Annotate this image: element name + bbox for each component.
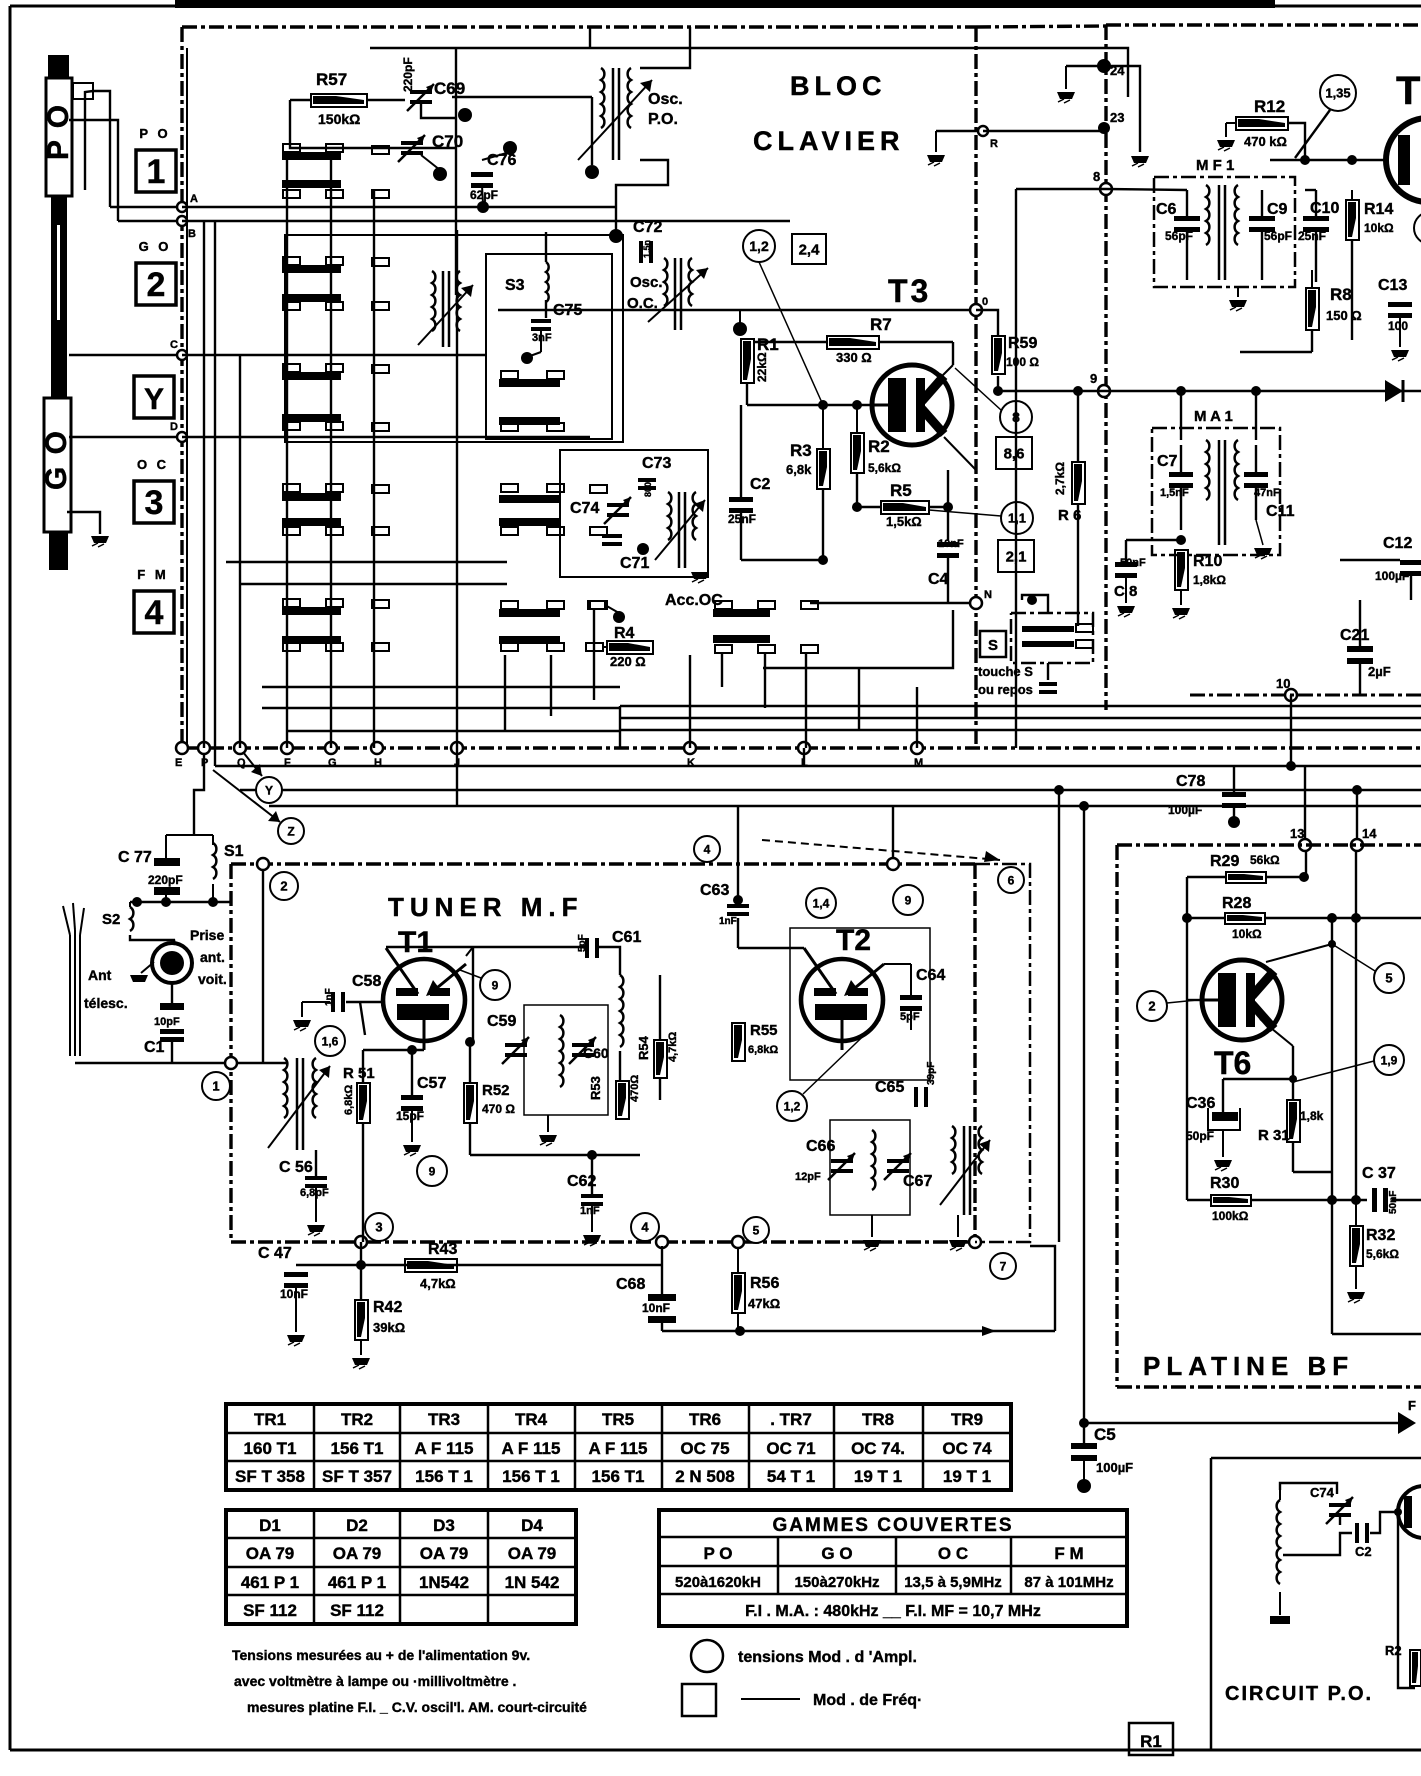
svg-text:1,5nF: 1,5nF <box>1160 487 1189 499</box>
switch contact <box>501 643 518 651</box>
svg-text:22kΩ: 22kΩ <box>755 352 769 382</box>
wire <box>1077 612 1079 626</box>
wire <box>411 1050 413 1097</box>
svg-text:C 77: C 77 <box>118 849 152 866</box>
svg-text:TR1: TR1 <box>254 1410 286 1429</box>
node D <box>177 432 187 442</box>
bus node J <box>451 742 463 754</box>
node 4b <box>656 1236 668 1248</box>
svg-text:R32: R32 <box>1366 1227 1395 1244</box>
capacitor C60 trimmer <box>572 1043 594 1047</box>
switch contact bar <box>282 636 341 644</box>
svg-text:TR6: TR6 <box>689 1410 721 1429</box>
svg-text:. TR7: . TR7 <box>770 1410 812 1429</box>
svg-text:OA 79: OA 79 <box>246 1544 295 1563</box>
svg-text:9: 9 <box>1090 371 1097 386</box>
svg-text:C21: C21 <box>1340 627 1369 644</box>
svg-text:1,6: 1,6 <box>322 1034 339 1048</box>
svg-text:23: 23 <box>1110 110 1124 125</box>
svg-text:E: E <box>175 757 182 769</box>
bloc clavier dashed border <box>182 25 976 28</box>
svg-text:C74: C74 <box>1310 1485 1335 1500</box>
svg-text:2: 2 <box>147 266 166 304</box>
switch contact <box>326 484 343 492</box>
svg-text:C12: C12 <box>1383 535 1412 552</box>
circled 1,1 <box>1001 502 1033 534</box>
wire <box>290 99 311 101</box>
switch contact <box>590 601 607 609</box>
node B <box>177 216 187 226</box>
svg-text:25nF: 25nF <box>1298 229 1326 243</box>
right block top dashed <box>1106 23 1421 26</box>
svg-text:3: 3 <box>145 484 164 522</box>
input transformer <box>284 1058 287 1118</box>
cluster box <box>560 450 708 577</box>
svg-text:TUNER M.F: TUNER M.F <box>388 892 584 922</box>
wire <box>1066 65 1104 67</box>
wire <box>810 602 971 604</box>
wire <box>262 686 620 688</box>
wire <box>1295 110 1330 158</box>
wire drop <box>721 653 723 687</box>
ground <box>403 1145 421 1152</box>
wire drop <box>805 653 807 748</box>
node 8 <box>1100 183 1112 195</box>
svg-text:156 T 1: 156 T 1 <box>502 1467 560 1486</box>
svg-text:100kΩ: 100kΩ <box>1212 1209 1249 1223</box>
bus node E <box>176 742 188 754</box>
circled 1,2b <box>777 1091 807 1121</box>
svg-text:R55: R55 <box>750 1022 778 1039</box>
svg-text:1,5n: 1,5n <box>642 240 652 258</box>
touche S dashed box <box>1011 613 1093 663</box>
svg-text:C2: C2 <box>750 476 771 493</box>
wire <box>1280 1483 1337 1494</box>
circled Y <box>256 777 282 803</box>
svg-text:13: 13 <box>1290 826 1304 841</box>
svg-text:Prise: Prise <box>190 927 224 943</box>
transformer T2 out <box>952 1126 955 1174</box>
svg-text:1nF: 1nF <box>719 916 737 927</box>
switch contact bar <box>282 180 341 188</box>
ferrite rod core <box>51 196 67 398</box>
bus node F <box>281 742 293 754</box>
GO osc outer box <box>285 235 623 442</box>
switch contact <box>501 371 518 379</box>
switch contact <box>372 600 389 608</box>
bus node M <box>911 742 923 754</box>
ground <box>1347 1292 1365 1299</box>
svg-text:F M: F M <box>1054 1544 1083 1563</box>
wire R7 left <box>753 341 827 343</box>
svg-text:S1: S1 <box>224 843 244 860</box>
circled 5b <box>1374 963 1404 993</box>
svg-text:9: 9 <box>905 893 912 907</box>
wire <box>455 48 457 295</box>
svg-text:TR4: TR4 <box>515 1410 548 1429</box>
circled 1,35 <box>1320 75 1356 111</box>
switch contact bar <box>713 635 770 643</box>
wire drop <box>239 355 241 748</box>
svg-text:M A 1: M A 1 <box>1194 408 1233 425</box>
svg-text:87 à 101MHz: 87 à 101MHz <box>1024 1574 1113 1591</box>
svg-text:1,9: 1,9 <box>1381 1053 1398 1067</box>
wire <box>1187 876 1226 878</box>
ground <box>1077 1479 1091 1493</box>
svg-text:220pF: 220pF <box>401 57 415 92</box>
circled 8 <box>1000 401 1032 433</box>
wire <box>1022 595 1048 613</box>
svg-text:C2: C2 <box>1355 1544 1372 1559</box>
wire T3 rail <box>498 309 971 311</box>
svg-text:S2: S2 <box>102 911 120 928</box>
switch contact <box>283 422 300 430</box>
wire rod A <box>93 91 110 207</box>
switch contact <box>372 527 389 535</box>
svg-text:100: 100 <box>1388 319 1408 333</box>
svg-text:CIRCUIT P.O.: CIRCUIT P.O. <box>1225 1683 1373 1705</box>
svg-text:C10: C10 <box>1310 200 1339 217</box>
capacitor C70 trimmer <box>401 141 423 145</box>
circled 9b <box>417 1156 447 1186</box>
svg-text:1N 542: 1N 542 <box>505 1573 560 1592</box>
svg-text:R57: R57 <box>316 70 347 89</box>
svg-text:T6: T6 <box>1214 1045 1251 1081</box>
svg-text:56pF: 56pF <box>1264 229 1292 243</box>
wire <box>1370 1512 1398 1533</box>
circled 1,9 <box>1374 1045 1404 1075</box>
wire <box>619 1051 621 1081</box>
svg-text:OC 75: OC 75 <box>680 1439 729 1458</box>
wire bus <box>620 705 1421 707</box>
wire tuner return <box>662 1330 1055 1332</box>
transistor T1 <box>383 959 465 1041</box>
svg-text:6: 6 <box>1008 873 1015 887</box>
svg-text:R42: R42 <box>373 1299 402 1316</box>
GO osc inner box <box>486 254 612 439</box>
svg-text:OA 79: OA 79 <box>333 1544 382 1563</box>
svg-text:1,8kΩ: 1,8kΩ <box>1193 573 1226 587</box>
ground MF1 <box>1229 300 1247 307</box>
svg-text:0: 0 <box>982 296 988 308</box>
switch contact <box>326 144 343 152</box>
wire drop M <box>916 687 918 748</box>
svg-text:mesures platine F.I. _ C.V. o: mesures platine F.I. _ C.V. oscil'l. AM.… <box>247 1699 587 1715</box>
transformer MA1 <box>1206 440 1209 500</box>
tank2 coil <box>872 1130 875 1190</box>
resistor R14 <box>1346 200 1359 240</box>
wire antenna in <box>75 1062 287 1064</box>
svg-text:S3: S3 <box>505 277 525 294</box>
node 24 <box>1097 59 1111 73</box>
ferrite rod GO sleeve <box>44 398 71 532</box>
coil S3 <box>546 262 549 302</box>
wire S row <box>130 901 232 903</box>
wire T1 top <box>386 946 586 948</box>
svg-text:6,8kΩ: 6,8kΩ <box>748 1044 778 1056</box>
tank box <box>524 1005 608 1115</box>
wire <box>591 97 593 165</box>
svg-text:R7: R7 <box>870 315 892 334</box>
svg-text:1,35: 1,35 <box>1325 86 1350 101</box>
rod ground stem <box>67 512 100 534</box>
button Y <box>134 376 174 418</box>
svg-text:O C: O C <box>137 457 169 472</box>
switch contact <box>283 484 300 492</box>
ground <box>1117 606 1135 613</box>
svg-text:TR2: TR2 <box>341 1410 373 1429</box>
svg-text:C58: C58 <box>352 973 381 990</box>
svg-text:R14: R14 <box>1364 201 1393 218</box>
wire osc rail <box>452 96 592 98</box>
transistor T4 partial <box>1386 118 1421 202</box>
svg-text:ou repos: ou repos <box>978 682 1033 697</box>
ground <box>1214 1160 1232 1167</box>
wire drop <box>593 610 595 700</box>
node A <box>177 202 187 212</box>
bus node K <box>684 742 696 754</box>
svg-text:OA 79: OA 79 <box>420 1544 469 1563</box>
wire <box>1104 66 1140 152</box>
R1 box <box>1129 1723 1173 1755</box>
wire <box>1084 1422 1398 1424</box>
ground C76 <box>477 201 489 213</box>
circled 1,6 <box>315 1026 345 1056</box>
wire bus <box>215 765 1421 767</box>
resistor R32 <box>1355 1200 1357 1226</box>
wire drop <box>550 655 552 716</box>
switch contact bar <box>282 265 341 273</box>
node N <box>970 597 982 609</box>
switch contact <box>283 527 300 535</box>
wire <box>1180 445 1182 474</box>
wire base rail <box>746 383 748 405</box>
svg-text:C78: C78 <box>1176 773 1205 790</box>
capacitor C69 <box>410 90 432 94</box>
svg-text:C 37: C 37 <box>1362 1165 1396 1182</box>
resistor R2 <box>851 433 864 473</box>
svg-text:10nF: 10nF <box>642 1301 670 1315</box>
node 1 circ <box>202 1072 230 1100</box>
svg-text:R56: R56 <box>750 1275 779 1292</box>
svg-text:avec voltmètre à lampe ou: avec voltmètre à lampe ou ·millivoltmètr… <box>234 1673 516 1689</box>
svg-text:D3: D3 <box>433 1516 455 1535</box>
wire <box>1288 123 1305 160</box>
ground <box>1131 156 1149 163</box>
svg-text:5,6kΩ: 5,6kΩ <box>1366 1247 1399 1261</box>
svg-text:50nF: 50nF <box>1388 1191 1399 1214</box>
legend square <box>682 1684 716 1716</box>
squared 2,1 <box>998 540 1034 572</box>
svg-text:voit.: voit. <box>198 971 227 987</box>
svg-text:470Ω: 470Ω <box>629 1075 641 1102</box>
wire <box>360 1242 362 1300</box>
svg-text:1,2: 1,2 <box>749 238 769 254</box>
capacitor C10 <box>1303 216 1329 221</box>
wire <box>1125 540 1127 564</box>
wire <box>1315 190 1317 218</box>
svg-text:R3: R3 <box>790 441 812 460</box>
ground cluster <box>637 543 649 555</box>
svg-text:100µF: 100µF <box>1096 1460 1133 1475</box>
svg-text:47nF: 47nF <box>1254 487 1280 499</box>
svg-text:télesc.: télesc. <box>84 995 128 1011</box>
diode <box>1385 380 1403 402</box>
svg-text:4,7kΩ: 4,7kΩ <box>667 1032 679 1062</box>
ground <box>583 1235 601 1242</box>
svg-text:54 T 1: 54 T 1 <box>767 1467 815 1486</box>
wire <box>262 707 620 709</box>
svg-text:8,6: 8,6 <box>1004 445 1025 462</box>
node edge <box>225 1057 237 1069</box>
wire <box>362 1050 364 1083</box>
switch contact bar <box>499 518 560 526</box>
svg-text:7: 7 <box>1000 1259 1007 1273</box>
resistor R55 <box>732 1023 745 1061</box>
resistor R6 <box>1072 462 1085 504</box>
ground <box>352 1358 370 1365</box>
wire drop <box>456 230 458 748</box>
transistor T6 <box>1202 960 1282 1040</box>
circled 7 <box>990 1253 1016 1279</box>
svg-text:T3: T3 <box>888 273 931 309</box>
svg-text:SF 112: SF 112 <box>243 1601 297 1620</box>
squared 8,6 <box>996 437 1032 469</box>
ground <box>307 1225 325 1232</box>
wire <box>640 27 690 68</box>
svg-text:1nF: 1nF <box>324 988 335 1006</box>
svg-text:330 Ω: 330 Ω <box>836 350 872 365</box>
wire <box>1265 917 1421 919</box>
switch contact <box>283 599 300 607</box>
wire <box>1016 188 1106 190</box>
transformer cluster <box>668 492 671 540</box>
switch contact <box>326 190 343 198</box>
svg-text:A F 115: A F 115 <box>502 1439 561 1458</box>
svg-text:220 Ω: 220 Ω <box>610 654 646 669</box>
svg-text:D1: D1 <box>259 1516 281 1535</box>
wire <box>983 130 1104 132</box>
wire <box>315 1150 317 1176</box>
wire <box>858 668 860 730</box>
bus node H <box>371 742 383 754</box>
wire <box>1359 600 1361 648</box>
wire <box>763 610 953 668</box>
switch S label <box>980 631 1006 657</box>
svg-text:19 T 1: 19 T 1 <box>854 1467 902 1486</box>
svg-text:Acc.OC: Acc.OC <box>665 592 723 609</box>
switch contact <box>326 527 343 535</box>
svg-text:Ant: Ant <box>88 967 112 983</box>
tank coil <box>560 1015 563 1087</box>
legend line <box>741 1698 800 1700</box>
svg-text:461 P 1: 461 P 1 <box>241 1573 299 1592</box>
switch contact bar <box>499 417 560 425</box>
wire base <box>1187 999 1202 1001</box>
svg-text:C60: C60 <box>583 1045 609 1061</box>
svg-text:OA 79: OA 79 <box>508 1544 557 1563</box>
svg-text:Osc.: Osc. <box>630 274 663 291</box>
svg-text:Y: Y <box>265 783 273 797</box>
svg-text:2,4: 2,4 <box>799 241 821 258</box>
svg-text:9: 9 <box>429 1164 436 1178</box>
wire <box>241 583 507 585</box>
svg-text:56kΩ: 56kΩ <box>1250 853 1280 867</box>
svg-text:6,8k: 6,8k <box>786 462 812 477</box>
switch contact <box>283 190 300 198</box>
svg-text:1: 1 <box>147 153 166 191</box>
MF1 dashed box <box>1154 177 1295 287</box>
wire <box>1290 695 1292 766</box>
resistor R1 <box>741 339 754 383</box>
table D1-D4 <box>226 1510 576 1624</box>
svg-text:100µF: 100µF <box>1168 803 1202 817</box>
svg-text:100 Ω: 100 Ω <box>1006 355 1039 369</box>
top dash joiner <box>976 26 1106 27</box>
svg-text:10kΩ: 10kΩ <box>1232 927 1262 941</box>
svg-text:10nF: 10nF <box>938 538 964 550</box>
switch contact <box>715 601 732 609</box>
wire vert <box>1058 790 1060 1242</box>
resistor R31 <box>1287 1100 1300 1142</box>
svg-text:5: 5 <box>753 1223 760 1237</box>
switch contact <box>372 302 389 310</box>
switch contact bar <box>282 372 341 380</box>
capacitor C9 <box>1249 216 1275 221</box>
svg-text:C: C <box>170 339 178 351</box>
resistor R2b <box>1410 1650 1421 1686</box>
node C <box>177 350 187 360</box>
node 2 circ <box>257 858 269 870</box>
ferrite rod top cap <box>48 55 69 80</box>
wire <box>737 864 739 906</box>
svg-text:100µF: 100µF <box>1375 569 1409 583</box>
table TR1-TR9 <box>226 1404 1011 1490</box>
svg-text:F.I . M.A. : 480kHz __ F.I. M: F.I . M.A. : 480kHz __ F.I. MF = 10,7 MH… <box>745 1603 1041 1620</box>
wire C36 link <box>1223 1078 1293 1080</box>
svg-text:50pF: 50pF <box>1186 1129 1214 1143</box>
circled 6 <box>998 867 1024 893</box>
wire <box>469 1042 471 1083</box>
switch contact <box>372 190 389 198</box>
svg-text:2: 2 <box>280 879 287 894</box>
svg-text:1N542: 1N542 <box>419 1573 469 1592</box>
svg-text:R2: R2 <box>868 437 890 456</box>
switch contact <box>283 144 300 152</box>
svg-text:62pF: 62pF <box>470 188 498 202</box>
wire node13 drop <box>1305 851 1307 877</box>
ground under rod <box>91 536 109 543</box>
svg-text:T2: T2 <box>836 924 871 957</box>
wire <box>1340 559 1400 561</box>
svg-text:tensions Mod . d 'Ampl.: tensions Mod . d 'Ampl. <box>738 1649 917 1666</box>
svg-text:D4: D4 <box>521 1516 543 1535</box>
arrowhead F <box>1398 1412 1416 1434</box>
wire collector <box>1266 944 1332 962</box>
ground <box>1254 548 1272 555</box>
switch contact <box>326 599 343 607</box>
svg-text:C13: C13 <box>1378 277 1407 294</box>
svg-text:G O: G O <box>139 239 172 254</box>
wire drop <box>764 653 766 708</box>
wire <box>589 27 591 48</box>
svg-text:R8: R8 <box>1330 285 1352 304</box>
svg-text:4: 4 <box>145 594 164 632</box>
svg-text:5,6kΩ: 5,6kΩ <box>868 461 901 475</box>
svg-text:800: 800 <box>643 482 653 497</box>
svg-text:C64: C64 <box>916 967 945 984</box>
switch contact <box>326 364 343 372</box>
